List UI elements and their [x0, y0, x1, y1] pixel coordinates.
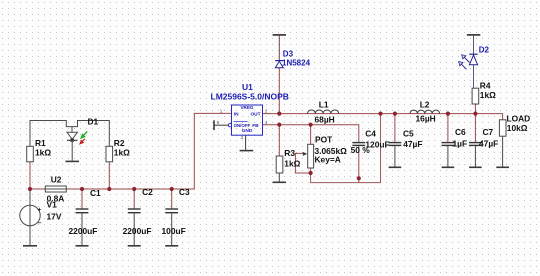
- svg-text:POT: POT: [315, 135, 333, 145]
- svg-text:C4: C4: [365, 128, 376, 138]
- resistor R3: [276, 156, 283, 173]
- wire D3 lower lead: [278, 68, 280, 114]
- svg-text:1µF: 1µF: [453, 139, 468, 149]
- wire C7 top lead: [474, 114, 476, 143]
- wire LOAD bottom lead: [502, 136, 504, 166]
- node C5: [393, 112, 397, 116]
- resistor R4: [472, 88, 479, 104]
- wire top-left loop rail: [30, 121, 109, 147]
- svg-text:C5: C5: [403, 128, 414, 138]
- inductor L2: [410, 110, 440, 113]
- wire FB rail to C4: [263, 125, 359, 143]
- svg-text:GND: GND: [242, 128, 253, 134]
- wiper arrowhead: [303, 152, 307, 156]
- inductor L1: [307, 110, 338, 114]
- op-amp U1 regulator box: [232, 105, 263, 135]
- svg-text:1N5824: 1N5824: [282, 58, 311, 67]
- wire OUT rail: [263, 114, 503, 120]
- wire R4 bottom lead: [474, 104, 476, 114]
- node D3/OUT: [277, 112, 281, 116]
- node wiper/POT bottom: [309, 171, 313, 175]
- svg-text:47µF: 47µF: [403, 139, 422, 149]
- LED D2: [467, 35, 480, 88]
- source V1: [20, 205, 42, 226]
- svg-text:IN: IN: [234, 111, 239, 117]
- node R2: [107, 187, 111, 191]
- svg-text:2200uF: 2200uF: [69, 226, 98, 236]
- svg-text:100uF: 100uF: [162, 226, 186, 236]
- node POT top/FB: [309, 123, 313, 127]
- svg-text:–: –: [38, 220, 42, 227]
- node V1/R1: [28, 187, 32, 191]
- capacitor C3: [165, 209, 178, 245]
- svg-text:1kΩ: 1kΩ: [35, 147, 51, 157]
- wire R3 top lead: [278, 125, 280, 156]
- svg-text:1kΩ: 1kΩ: [114, 147, 130, 157]
- U1 GND pin lead: [245, 135, 247, 150]
- wire POT top lead: [310, 125, 312, 145]
- capacitor C1: [76, 209, 89, 245]
- diode D3: [273, 35, 286, 68]
- D2 arrow 1: [462, 55, 470, 63]
- wire D3 upper lead: [278, 36, 280, 61]
- svg-text:Key=A: Key=A: [315, 155, 341, 165]
- resistor LOAD: [499, 120, 506, 136]
- ground under C5: [389, 166, 402, 168]
- svg-text:LM2596S-5.0/NOPB: LM2596S-5.0/NOPB: [211, 92, 289, 102]
- capacitor C2: [128, 209, 141, 245]
- svg-text:2: 2: [265, 109, 268, 114]
- D1 red arrow: [79, 139, 85, 145]
- resistor R1: [27, 146, 34, 162]
- svg-text:1: 1: [220, 109, 223, 114]
- ground under C2: [128, 245, 141, 247]
- D2 arrow 2: [459, 62, 467, 70]
- LED D1: [67, 127, 78, 161]
- wire R1 bottom lead: [29, 162, 31, 189]
- ground under C1: [76, 245, 89, 247]
- svg-text:17V: 17V: [47, 212, 62, 222]
- D1 green arrow: [80, 132, 87, 140]
- svg-text:4: 4: [265, 120, 268, 125]
- svg-text:U2: U2: [51, 175, 62, 185]
- node C6: [446, 112, 450, 116]
- svg-text:VREG: VREG: [240, 105, 253, 110]
- wire R2 bottom lead: [108, 162, 110, 189]
- ground under C7: [469, 166, 482, 168]
- ground under LOAD: [496, 166, 509, 168]
- ground under U1: [240, 150, 254, 152]
- ground under V1: [23, 245, 37, 247]
- svg-text:68µH: 68µH: [315, 115, 335, 125]
- wire C6 top lead: [447, 114, 449, 143]
- svg-text:ON/OFF: ON/OFF: [234, 123, 251, 128]
- svg-text:5: 5: [217, 120, 220, 125]
- wire C1 top lead: [81, 189, 83, 208]
- wire main bottom rail to U1 IN riser: [30, 113, 232, 189]
- svg-text:V1: V1: [47, 200, 58, 210]
- node R3/FB: [277, 123, 281, 127]
- svg-text:R3: R3: [284, 148, 295, 158]
- fuse U2: [45, 186, 66, 192]
- svg-text:10kΩ: 10kΩ: [507, 123, 528, 133]
- svg-text:D3: D3: [283, 50, 294, 59]
- svg-text:D1: D1: [88, 117, 99, 127]
- svg-text:C1: C1: [90, 188, 101, 198]
- capacitor C5: [389, 143, 402, 167]
- wire C5 top lead: [394, 114, 396, 143]
- svg-text:120uF: 120uF: [365, 139, 389, 149]
- junction node dots: [28, 112, 478, 192]
- svg-text:+: +: [38, 207, 42, 214]
- wire POT wiper: [295, 153, 310, 173]
- svg-text:U1: U1: [242, 82, 253, 92]
- ground under D1: [66, 160, 80, 162]
- svg-text:LOAD: LOAD: [507, 114, 531, 124]
- svg-text:OUT: OUT: [250, 111, 260, 117]
- svg-text:C7: C7: [483, 127, 494, 137]
- capacitor C7: [469, 143, 482, 167]
- svg-text:FB: FB: [252, 123, 259, 129]
- capacitor C6: [442, 143, 455, 167]
- svg-text:2200uF: 2200uF: [123, 226, 152, 236]
- svg-text:C6: C6: [455, 127, 466, 137]
- svg-text:1kΩ: 1kΩ: [480, 90, 496, 100]
- ground under R3: [273, 181, 286, 183]
- svg-text:47µF: 47µF: [479, 139, 498, 149]
- node POT riser/OUT: [378, 112, 382, 116]
- svg-text:1kΩ: 1kΩ: [284, 158, 300, 168]
- node C1: [80, 187, 84, 191]
- svg-text:C2: C2: [142, 187, 153, 197]
- ground under C6: [442, 166, 455, 168]
- node C3: [170, 187, 174, 191]
- wire C3 top lead: [171, 189, 173, 208]
- wire V1 top lead: [29, 189, 31, 205]
- wire C2 top lead: [133, 189, 135, 208]
- svg-text:C3: C3: [179, 187, 190, 197]
- potentiometer POT: [308, 144, 314, 168]
- svg-text:3: 3: [241, 135, 244, 140]
- node R4/C7: [473, 112, 477, 116]
- svg-text:16µH: 16µH: [416, 114, 436, 124]
- capacitor C4: [352, 143, 365, 146]
- wire R3 bottom lead: [278, 173, 280, 182]
- svg-text:L2: L2: [420, 100, 430, 110]
- ground under C3: [165, 245, 178, 247]
- node C4 bottom: [357, 176, 361, 180]
- svg-text:L1: L1: [319, 100, 329, 110]
- wire C4 bottom lead: [358, 146, 360, 183]
- wire V1 bottom lead: [29, 226, 31, 246]
- ON/OFF pin circle and ground: [214, 120, 232, 130]
- node C2: [132, 187, 136, 191]
- resistor R2: [106, 146, 113, 162]
- wire POT bottom rail and riser to OUT: [311, 114, 381, 183]
- svg-text:D2: D2: [479, 46, 490, 55]
